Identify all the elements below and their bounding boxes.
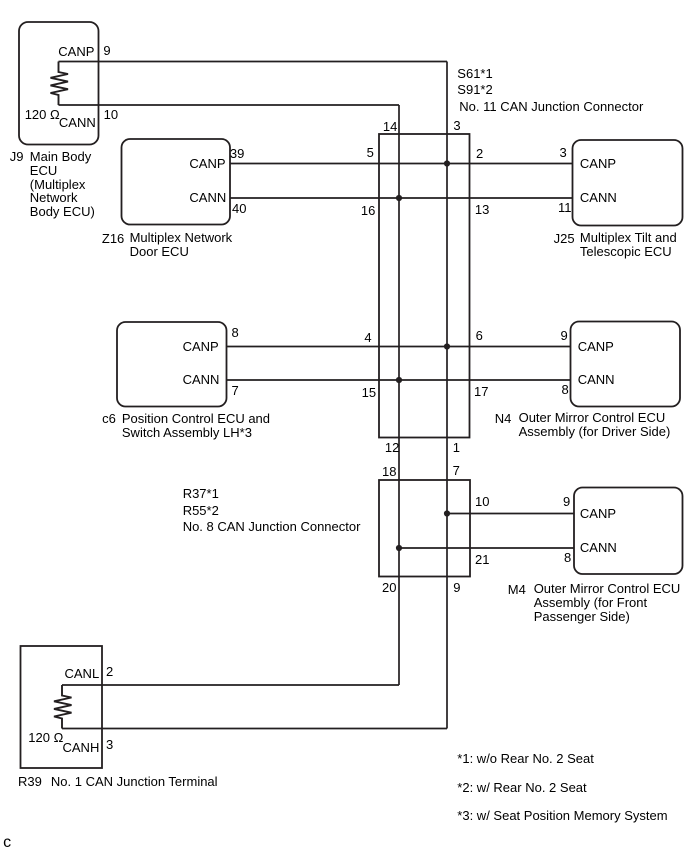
name label of R39: [51, 775, 218, 788]
pin number 9 of M4: [563, 495, 570, 508]
label CANP inside c6: [183, 340, 219, 353]
designator M4: [508, 583, 526, 596]
pin number 14 of No. 11 junction: [383, 120, 397, 133]
ECU box c6 Position Control ECU: [117, 322, 227, 407]
pin number 9 of J9: [103, 44, 110, 57]
label CANH inside R39: [63, 741, 100, 754]
value label 120 ohm in J9: [25, 108, 60, 121]
pin number 11 of J25: [558, 201, 572, 214]
pin number 1 of No. 11 junction: [453, 441, 460, 454]
label CANP inside M4: [580, 507, 616, 520]
pin number 8 of M4: [564, 551, 571, 564]
resistor 120 ohm inside R39: [54, 685, 72, 729]
ECU box J25 Multiplex Tilt and Telescopic ECU: [573, 140, 683, 226]
pin number 9 of No. 8 junction: [453, 581, 460, 594]
pin number 18 of No. 8 junction: [382, 465, 396, 478]
pin number 17 of No. 11 junction: [474, 385, 488, 398]
designator N4: [495, 412, 512, 425]
pin number 10 of J9: [104, 108, 118, 121]
junction node dot on CANP wire at bus line B (pin 10 row): [444, 510, 450, 516]
wire CANN Z16 pin 40 through junction pins 16-13 to J25 pin 11: [230, 197, 573, 199]
label of No. 11 CAN junction connector S61/S91: [457, 66, 643, 116]
ECU box Z16 Multiplex Network Door ECU: [122, 139, 231, 225]
pin number 5 of No. 11 junction: [367, 146, 374, 159]
pin number 21 of No. 8 junction: [475, 553, 489, 566]
pin number 3 of R39: [106, 738, 113, 751]
pin number 8 of N4: [562, 383, 569, 396]
wire CANP junction pin 10 to M4 pin 9: [447, 513, 574, 515]
pin number 2 of No. 11 junction: [476, 147, 483, 160]
designator R39: [18, 775, 42, 788]
footnote 2: [457, 781, 586, 794]
label CANP inside Z16: [189, 157, 225, 170]
wire CANL to R39 pin 2: [62, 684, 399, 686]
label CANN inside J9: [59, 116, 96, 129]
pin number 7 of c6: [232, 384, 239, 397]
name label of N4: [519, 411, 671, 438]
label CANP inside N4: [578, 340, 614, 353]
junction terminal box R39: [21, 646, 103, 768]
wire CANN c6 pin 7 through junction pins 15-17 to N4 pin 8: [227, 379, 571, 381]
pin number 2 of R39: [106, 665, 113, 678]
pin number 39 of Z16: [230, 147, 244, 160]
pin number 13 of No. 11 junction: [475, 203, 489, 216]
pin number 40 of Z16: [232, 202, 246, 215]
name label of c6: [122, 412, 270, 439]
name label of J25: [580, 231, 677, 258]
label CANN inside c6: [183, 373, 220, 386]
pin number 20 of No. 8 junction: [382, 581, 396, 594]
designator J25: [554, 232, 575, 245]
ECU box M4 Outer Mirror Control ECU (Passenger): [574, 488, 683, 575]
pin number 9 of N4: [561, 329, 568, 342]
pin number 16 of No. 11 junction: [361, 204, 375, 217]
pin number 3 of J25: [560, 146, 567, 159]
junction node dot on CANN wire at bus line A (pin 21 row): [396, 545, 402, 551]
junction node dot on CANP wire at bus line B (pin 6 row): [444, 343, 450, 349]
pin number 10 of No. 8 junction: [475, 495, 489, 508]
wire CANP Z16 pin 39 through junction pins 5-2 to J25 pin 3: [230, 163, 573, 165]
label of No. 8 CAN junction connector R37/R55: [183, 486, 361, 536]
label CANN inside J25: [580, 191, 617, 204]
ECU box J9 Main Body ECU: [19, 22, 99, 145]
value label 120 ohm in R39: [28, 731, 63, 744]
wire CANH to R39 pin 3: [62, 728, 447, 730]
designator J9: [10, 150, 24, 163]
name label of Z16: [130, 231, 233, 258]
wire CAN main bus line A (vertical through pins 14-12-18-20): [398, 105, 400, 685]
page footer letter c: [3, 835, 11, 851]
wire CANN J9 pin 10 to junction top pin 14: [59, 104, 400, 106]
pin number 8 of c6: [232, 326, 239, 339]
wire CANP J9 pin 9 to junction top: [59, 61, 448, 63]
pin number 6 of No. 11 junction: [476, 329, 483, 342]
resistor 120 ohm inside J9: [51, 62, 69, 106]
junction node dot on CANN wire at bus line A (pin 15 row): [396, 377, 402, 383]
name label of M4: [534, 582, 681, 623]
pin number 15 of No. 11 junction: [362, 386, 376, 399]
pin number 3 of No. 11 junction: [453, 119, 460, 132]
junction connector box R37/R55 No. 8 CAN Junction Connector: [379, 480, 470, 577]
pin number 4 of No. 11 junction: [364, 331, 371, 344]
label CANN inside N4: [578, 373, 615, 386]
label CANP inside J25: [580, 157, 616, 170]
designator c6: [102, 412, 116, 425]
footnote 1: [457, 752, 594, 765]
wire CANN junction pin 21 to M4 pin 8: [399, 547, 574, 549]
label CANL inside R39: [65, 667, 100, 680]
footnote 3: [457, 809, 667, 822]
label CANP inside J9: [58, 45, 94, 58]
designator Z16: [102, 232, 124, 245]
wire CANP c6 pin 8 through junction pins 4-6 to N4 pin 9: [227, 346, 571, 348]
ECU box N4 Outer Mirror Control ECU (Driver): [571, 322, 681, 407]
junction connector box S61/S91 No. 11 CAN Junction Connector: [379, 134, 470, 438]
label CANN inside M4: [580, 541, 617, 554]
label CANN inside Z16: [189, 191, 226, 204]
wire CAN main bus line B (vertical through pins 3-1-7-9): [446, 62, 448, 729]
pin number 7 of No. 8 junction: [453, 464, 460, 477]
junction node dot on CANN wire at bus line A (pin 16 row): [396, 195, 402, 201]
pin number 12 of No. 11 junction: [385, 441, 399, 454]
name label of J9: [30, 150, 95, 219]
junction node dot on CANP wire at bus line B (pin 2 row): [444, 160, 450, 166]
